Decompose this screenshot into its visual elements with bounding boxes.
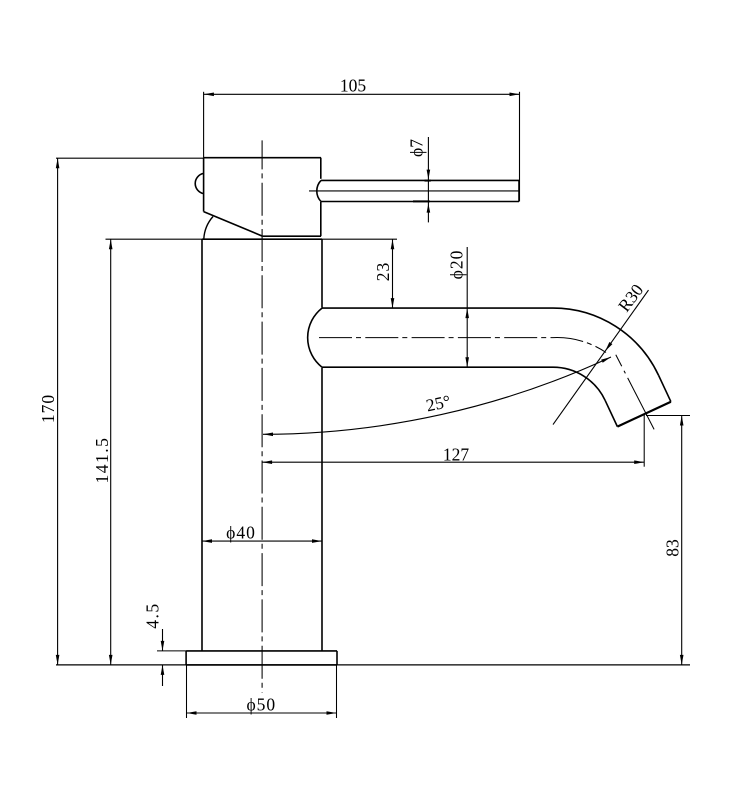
svg-text:ϕ20: ϕ20 xyxy=(447,250,467,280)
dim 127 line xyxy=(262,461,644,463)
dim phi20 bottom arrow xyxy=(465,357,469,367)
dim 127 left arrow xyxy=(262,460,272,464)
dim 83 bottom arrow xyxy=(680,655,684,665)
spout outer bend arc xyxy=(553,308,659,375)
head pivot semicircle xyxy=(195,173,203,193)
dim phi7 bottom tick xyxy=(413,200,430,202)
body left edge xyxy=(201,239,203,651)
dim 105 right ext xyxy=(519,92,521,202)
svg-text:170: 170 xyxy=(38,394,58,423)
dim 141.5 top arrow xyxy=(109,239,113,249)
spout bottom edge xyxy=(322,366,553,368)
spout outer nozzle edge xyxy=(659,375,671,401)
base flange left edge xyxy=(185,651,187,665)
svg-text:ϕ7: ϕ7 xyxy=(407,139,427,157)
dim 105 left arrow xyxy=(204,93,214,97)
faucet head left edge xyxy=(203,158,205,212)
svg-text:25°: 25° xyxy=(424,391,452,416)
head diagonal bottom-left edge xyxy=(204,212,263,237)
lever bar rounded cap xyxy=(317,180,321,201)
faucet head top edge xyxy=(204,157,321,159)
lever bar centerline xyxy=(309,190,519,192)
dim phi50 left ext xyxy=(186,665,188,718)
lever bar top edge xyxy=(321,179,519,181)
dim 25deg arc xyxy=(263,357,611,434)
dim 127 right arrow xyxy=(634,460,644,464)
svg-text:23: 23 xyxy=(373,262,393,282)
dim 23 bottom arrow xyxy=(391,298,395,308)
dim phi7 line xyxy=(427,137,429,222)
handle swing arc xyxy=(204,217,213,239)
dim 25deg left arrow xyxy=(263,433,273,437)
svg-text:127: 127 xyxy=(443,445,470,465)
dim 83 line xyxy=(681,416,683,665)
base flange right edge xyxy=(336,651,338,665)
body right edge upper xyxy=(321,239,323,308)
body top extension line xyxy=(106,238,398,240)
spout top edge xyxy=(322,307,553,309)
dim phi40 right arrow xyxy=(312,539,322,543)
dim phi7 upper arrow xyxy=(427,170,431,180)
dim 141.5 bottom arrow xyxy=(109,655,113,665)
svg-text:141.5: 141.5 xyxy=(92,437,112,484)
dim phi50 right ext xyxy=(336,665,338,718)
head right edge upper xyxy=(320,158,322,179)
spout outlet axis centerline xyxy=(616,355,654,430)
body vertical centerline xyxy=(261,140,263,692)
dim phi40 line xyxy=(202,540,322,542)
head right edge lower xyxy=(320,202,322,236)
base flange top edge xyxy=(186,650,337,652)
head bottom edge xyxy=(263,235,321,237)
spout left cap arc xyxy=(308,308,322,367)
lever bar right end xyxy=(518,180,520,201)
dim 170 bottom arrow xyxy=(56,655,60,665)
dim phi7 lower arrow xyxy=(427,204,431,213)
dim 170 top ext xyxy=(56,157,204,159)
dim 127 right ext xyxy=(643,414,645,466)
dim 4.5 ext xyxy=(157,650,186,652)
svg-text:83: 83 xyxy=(663,539,683,557)
spout centerline horizontal and bend xyxy=(319,338,606,353)
spout inner nozzle edge xyxy=(605,400,617,426)
svg-text:R30: R30 xyxy=(614,280,648,316)
dim 4.5 lower line xyxy=(162,665,164,686)
dim R30 arrow xyxy=(605,342,612,351)
svg-text:ϕ40: ϕ40 xyxy=(226,523,256,543)
dim phi20 top arrow xyxy=(465,308,469,318)
dim phi20 line xyxy=(466,247,468,367)
dim phi50 line xyxy=(187,712,337,714)
dim 4.5 lower arrow xyxy=(161,665,165,675)
dim R30 leader xyxy=(553,290,649,425)
dimensions group xyxy=(56,92,690,718)
dim 23 line xyxy=(392,239,394,308)
body right edge lower xyxy=(321,368,323,651)
dim 105 left ext xyxy=(203,92,205,158)
dim 25deg right arrow xyxy=(601,357,611,363)
dim 4.5 upper arrow xyxy=(161,641,165,651)
dim phi40 left arrow xyxy=(202,539,212,543)
base flange bottom edge xyxy=(186,664,337,666)
dim 83 top arrow xyxy=(680,416,684,426)
spout inner bend arc xyxy=(553,367,605,400)
dim 170 line xyxy=(57,158,59,665)
body top edge xyxy=(202,238,322,240)
dim phi7 top tick xyxy=(425,180,431,182)
svg-text:4.5: 4.5 xyxy=(143,602,163,628)
dim phi50 left arrow xyxy=(187,711,197,715)
spout end face xyxy=(617,402,671,427)
svg-text:ϕ50: ϕ50 xyxy=(246,694,276,714)
dim 105 line xyxy=(204,93,520,95)
dim 23 top arrow xyxy=(391,239,395,249)
dim 83 top ext xyxy=(646,415,690,417)
dim phi50 right arrow xyxy=(327,711,337,715)
lever bar bottom edge xyxy=(321,201,519,203)
ground line xyxy=(56,664,690,666)
dim 4.5 upper line xyxy=(162,629,164,651)
dim 141.5 line xyxy=(110,239,112,665)
dim 170 top arrow xyxy=(56,158,60,168)
svg-text:105: 105 xyxy=(340,76,367,96)
dim 105 right arrow xyxy=(510,93,520,97)
